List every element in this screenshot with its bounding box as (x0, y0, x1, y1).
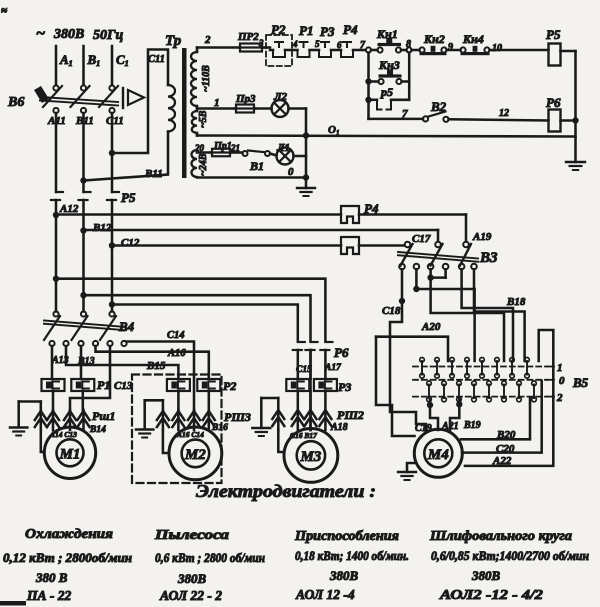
svg-text:В14: В14 (89, 425, 106, 435)
svg-text:В4: В4 (118, 319, 135, 334)
svg-text:А12: А12 (59, 203, 79, 215)
svg-text:Шлифовального круга: Шлифовального круга (429, 528, 572, 543)
svg-text:6: 6 (337, 40, 342, 50)
svg-text:Кн4: Кн4 (462, 32, 484, 46)
svg-text:380В: 380В (471, 568, 501, 583)
svg-text:Кн2: Кн2 (423, 32, 445, 46)
svg-text:~24В: ~24В (198, 153, 209, 176)
svg-text:5: 5 (315, 39, 320, 49)
svg-text:0,12 кВт ; 2800об/мин: 0,12 кВт ; 2800об/мин (3, 551, 132, 565)
svg-text:В15: В15 (146, 360, 166, 372)
svg-text:~110В: ~110В (201, 65, 212, 92)
svg-text:А13: А13 (51, 355, 69, 366)
svg-text:р5: р5 (380, 85, 393, 99)
svg-text:АОЛ 22 - 2: АОЛ 22 - 2 (159, 588, 222, 603)
svg-text:≈: ≈ (1, 5, 7, 17)
svg-text:Р6: Р6 (546, 95, 561, 110)
svg-text:0,6 кВт ; 2800 об/мин: 0,6 кВт ; 2800 об/мин (155, 551, 265, 565)
svg-text:ПА - 22: ПА - 22 (26, 588, 72, 603)
svg-text:Р4: Р4 (364, 201, 379, 216)
svg-text:А17: А17 (324, 363, 342, 373)
svg-text:А16: А16 (167, 348, 186, 359)
svg-text:М3: М3 (299, 449, 321, 465)
svg-text:0,18 кВт; 1400 об/мин.: 0,18 кВт; 1400 об/мин. (295, 549, 409, 563)
svg-text:Приспособления: Приспособления (294, 528, 399, 543)
svg-text:В18: В18 (506, 296, 526, 308)
svg-text:С12: С12 (121, 237, 140, 249)
svg-text:С14: С14 (167, 330, 185, 341)
svg-text:Р1: Р1 (299, 23, 313, 38)
svg-text:7: 7 (402, 108, 408, 120)
svg-text:С20: С20 (496, 443, 515, 455)
svg-text:М1: М1 (59, 446, 81, 462)
svg-text:Р3: Р3 (320, 24, 335, 39)
svg-text:Р4: Р4 (343, 22, 358, 37)
svg-text:2: 2 (204, 34, 211, 46)
svg-text:М2: М2 (184, 447, 206, 463)
svg-text:Р5: Р5 (121, 190, 136, 205)
svg-text:0: 0 (559, 375, 565, 387)
svg-text:В13: В13 (77, 356, 95, 367)
svg-text:0,6/0,85 кВт;1400/2700 об/мин: 0,6/0,85 кВт;1400/2700 об/мин (431, 549, 589, 563)
svg-text:В20: В20 (496, 429, 516, 441)
svg-text:А22: А22 (492, 455, 512, 467)
svg-text:Рш1: Рш1 (92, 409, 115, 423)
svg-text:В16: В16 (211, 423, 228, 433)
svg-text:9: 9 (448, 42, 453, 53)
svg-text:380В: 380В (329, 568, 359, 583)
svg-text:0: 0 (288, 166, 294, 178)
svg-text:Р2: Р2 (223, 379, 236, 393)
svg-text:380 В: 380 В (35, 570, 68, 585)
svg-text:С17: С17 (412, 233, 431, 245)
svg-text:2: 2 (556, 392, 563, 404)
svg-text:С13: С13 (114, 380, 133, 392)
svg-text:50Гц: 50Гц (93, 28, 123, 43)
svg-text:Электродвигатели :: Электродвигатели : (196, 481, 376, 501)
svg-text:С11: С11 (106, 115, 124, 127)
svg-text:А20: А20 (421, 321, 441, 333)
svg-text:В12: В12 (92, 222, 112, 234)
svg-text:~5В: ~5В (198, 110, 209, 128)
svg-text:Р3: Р3 (338, 380, 351, 394)
svg-text:В6: В6 (7, 95, 24, 110)
svg-text:Р6: Р6 (334, 345, 349, 360)
svg-text:Охлаждения: Охлаждения (25, 526, 113, 541)
svg-text:Р2: Р2 (271, 22, 286, 37)
svg-text:С18: С18 (382, 305, 401, 317)
svg-text:АОЛ 12 -4: АОЛ 12 -4 (295, 587, 355, 602)
svg-text:1: 1 (557, 362, 563, 374)
svg-text:РШ2: РШ2 (337, 408, 364, 422)
svg-text:В19: В19 (463, 420, 481, 431)
svg-text:Р5: Р5 (546, 27, 561, 42)
svg-text:10: 10 (492, 43, 502, 54)
svg-text:С11: С11 (148, 54, 165, 65)
svg-text:РШ3: РШ3 (224, 410, 251, 424)
svg-text:ПР2: ПР2 (237, 31, 259, 43)
svg-text:1: 1 (214, 97, 220, 109)
svg-text:В3: В3 (479, 250, 498, 266)
svg-text:Пылесоса: Пылесоса (154, 527, 230, 542)
svg-text:М4: М4 (427, 447, 449, 463)
svg-text:В11: В11 (144, 168, 163, 180)
svg-text:АОЛ2 -12 - 4/2: АОЛ2 -12 - 4/2 (439, 587, 544, 602)
svg-text:380В: 380В (53, 27, 84, 42)
svg-text:В5: В5 (572, 375, 589, 390)
svg-text:А18: А18 (330, 422, 348, 433)
svg-text:12: 12 (499, 108, 509, 119)
svg-text:В1: В1 (249, 159, 264, 173)
svg-text:Тр: Тр (165, 33, 182, 49)
svg-text:~: ~ (36, 25, 45, 42)
svg-text:380В: 380В (177, 571, 207, 586)
svg-text:4: 4 (292, 39, 298, 49)
svg-text:Пр3: Пр3 (235, 93, 256, 105)
svg-text:А19: А19 (472, 231, 492, 243)
svg-text:Р1: Р1 (97, 378, 110, 392)
